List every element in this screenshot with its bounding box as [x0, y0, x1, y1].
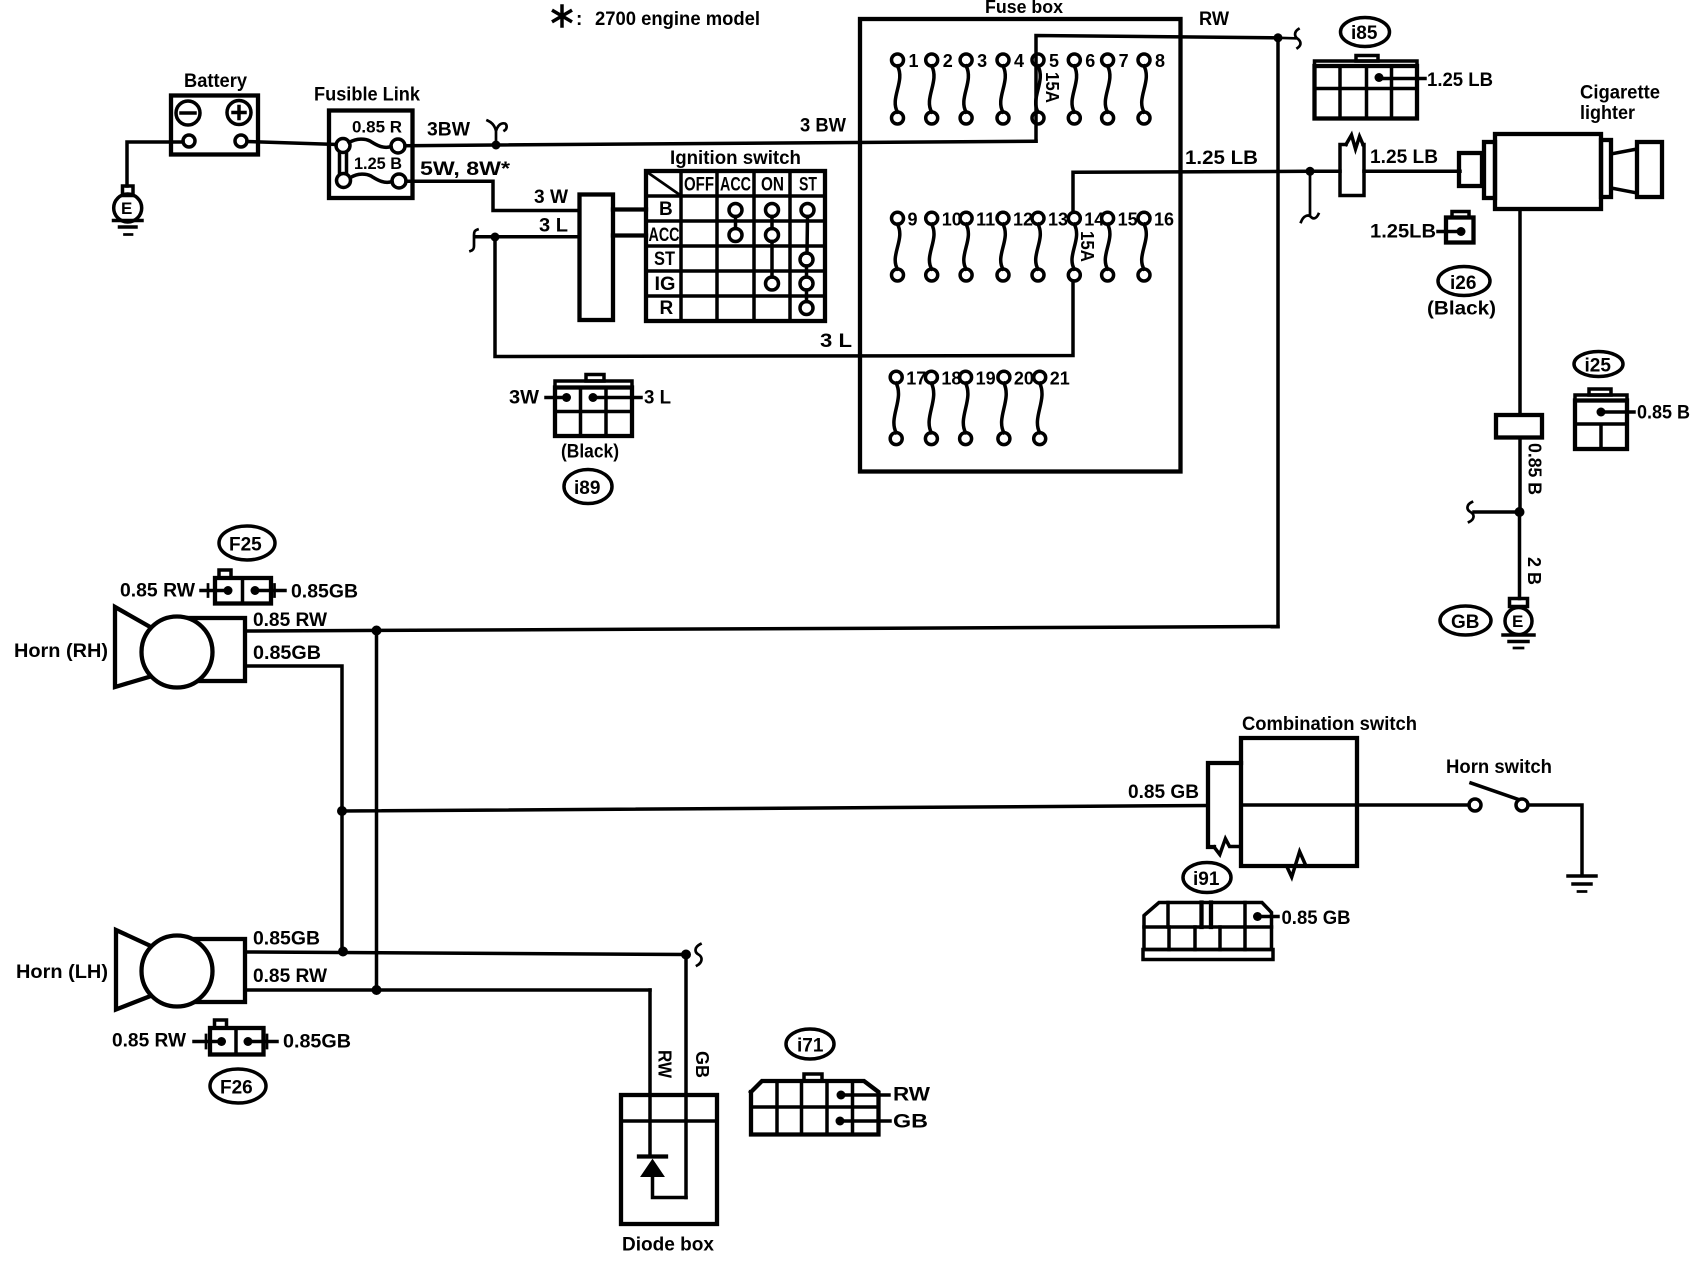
svg-text:15A: 15A [1077, 231, 1097, 262]
wire 0.85 RW horn LH to diode box [245, 988, 650, 992]
connector i85 [1315, 56, 1426, 119]
svg-text:R: R [660, 298, 674, 319]
connector branch symbol on 3BW [488, 121, 507, 146]
svg-text:ACC: ACC [649, 225, 680, 246]
fuse 6 [1068, 51, 1095, 124]
wire below inline connector [1518, 438, 1522, 513]
svg-text:2700 engine model: 2700 engine model [595, 9, 760, 30]
svg-text:21: 21 [1050, 369, 1070, 389]
connector i25 [1575, 389, 1634, 449]
svg-text:Horn (LH): Horn (LH) [16, 962, 108, 983]
fuse 17 [890, 369, 926, 445]
wire battery negative to ground [127, 142, 183, 186]
svg-text:1: 1 [909, 51, 919, 71]
fuse 19 [960, 369, 996, 445]
svg-text:15: 15 [1118, 210, 1138, 230]
cigarette lighter [1459, 83, 1662, 210]
svg-text:Ignition switch: Ignition switch [670, 148, 801, 169]
svg-text:Fusible Link: Fusible Link [314, 85, 420, 106]
diode box [621, 1095, 717, 1224]
junction on 3L wire [491, 233, 500, 242]
junction GB to combination switch [337, 806, 347, 816]
junction GB vertical / horn LH [338, 947, 348, 957]
svg-text:17: 17 [906, 369, 926, 389]
svg-text:ACC: ACC [720, 175, 751, 196]
fuse 3 [960, 51, 987, 124]
svg-text:Diode box: Diode box [622, 1235, 714, 1256]
svg-text:12: 12 [1013, 210, 1033, 230]
svg-text:3 W: 3 W [534, 187, 568, 208]
wire cigarette lighter to ground chain 0.85B [1518, 209, 1522, 415]
horn switch [1446, 757, 1552, 811]
wire 0.85GB horn RH down [245, 666, 342, 952]
fuse 2 [926, 51, 953, 124]
svg-text:F25: F25 [229, 535, 262, 556]
connector i89 [546, 375, 641, 437]
svg-text:7: 7 [1119, 51, 1129, 71]
svg-text:RW: RW [655, 1050, 675, 1078]
battery BAT [171, 71, 258, 155]
svg-text:0.85GB: 0.85GB [291, 582, 358, 603]
svg-text:3W: 3W [509, 388, 539, 409]
connector ref i85 [1341, 18, 1390, 47]
wire RW vertical to horn circuit [1276, 38, 1280, 627]
svg-text:i25: i25 [1585, 356, 1612, 377]
connector i91 [1143, 903, 1278, 960]
svg-text:IG: IG [655, 274, 676, 295]
svg-text::: : [576, 9, 582, 30]
junction 1.25LB wire [1306, 167, 1315, 176]
connector i26 (1.25LB) [1438, 212, 1474, 243]
svg-text:0.85 GB: 0.85 GB [1282, 908, 1351, 929]
svg-text:Fuse box: Fuse box [985, 0, 1063, 17]
svg-text:i85: i85 [1351, 23, 1378, 44]
fuse 5 [1032, 51, 1059, 124]
connector ref i89 [564, 470, 612, 504]
wire 0.85GB horn LH to diode box [245, 952, 686, 955]
svg-text:Battery: Battery [184, 71, 247, 92]
svg-text:Horn switch: Horn switch [1446, 757, 1552, 778]
svg-text:i71: i71 [797, 1036, 824, 1057]
fuse box internal bus fuse 14 to 1.25LB output [1073, 171, 1310, 212]
svg-text:GB: GB [893, 1112, 928, 1133]
svg-text:13: 13 [1048, 210, 1068, 230]
wire 0.85GB to combination switch [342, 806, 1208, 812]
connector i71 [751, 1074, 890, 1135]
svg-text:0.85 RW: 0.85 RW [120, 581, 195, 602]
ignition table column labels [684, 175, 817, 196]
svg-text:GB: GB [1451, 612, 1480, 633]
svg-text:B: B [659, 199, 673, 220]
svg-text:3 L: 3 L [820, 331, 852, 352]
svg-text:i91: i91 [1193, 869, 1220, 890]
fuse 14 [1068, 210, 1104, 282]
connector F25 [201, 570, 285, 604]
connector continuation symbol below 1.25LB junction [1301, 171, 1319, 222]
svg-text:(Black): (Black) [561, 442, 619, 463]
junction on 3BW wire [492, 141, 501, 150]
svg-text:19: 19 [976, 369, 996, 389]
svg-text:0.85 B: 0.85 B [1525, 443, 1545, 495]
svg-text:9: 9 [908, 210, 918, 230]
fuse 1 [892, 51, 919, 124]
connector ref i25 [1574, 352, 1623, 377]
wire RW vertical (x377) [375, 631, 379, 991]
fuse 4 [997, 51, 1024, 124]
wire RW down into diode box [648, 990, 652, 1156]
ignition table row labels [649, 199, 680, 319]
junction RW wire [1274, 33, 1283, 42]
wire GB down into diode box [684, 955, 688, 1198]
fuse 15 [1102, 210, 1138, 282]
svg-text:RW: RW [1199, 9, 1229, 30]
wire horn switch to ground [1528, 805, 1582, 875]
svg-text:i89: i89 [574, 478, 600, 499]
svg-text:8: 8 [1155, 51, 1165, 71]
svg-text:4: 4 [1014, 51, 1024, 71]
fuse 16 [1138, 210, 1174, 282]
fuse box [860, 0, 1181, 472]
wire 3L down and right to fuse box [495, 237, 1073, 357]
inline connector on 1.25LB wire [1310, 135, 1364, 196]
fuse 18 [925, 369, 961, 445]
svg-text:ST: ST [654, 249, 675, 270]
connector ref i71 [786, 1029, 834, 1059]
fuse 9 [892, 210, 918, 282]
wire 3BW from fusible link to fuse box [405, 141, 1036, 146]
svg-text:i26: i26 [1450, 273, 1476, 294]
connector continuation symbol RW [1278, 29, 1300, 48]
wire 3L from connector stub to ignition switch [475, 235, 580, 239]
fuse 13 [1032, 210, 1068, 282]
junction RW vertical / horn LH [372, 985, 382, 995]
svg-text:15A: 15A [1042, 72, 1062, 103]
fusible link bus bar [340, 153, 347, 174]
svg-text:0.85 RW: 0.85 RW [253, 610, 327, 631]
wire 2B to ground [1518, 512, 1522, 599]
svg-text:E: E [1512, 612, 1523, 631]
wire battery to fusible link [247, 142, 336, 145]
svg-text:F26: F26 [220, 1078, 253, 1099]
svg-text:OFF: OFF [684, 175, 714, 196]
svg-text:0.85GB: 0.85GB [253, 929, 320, 950]
svg-text:5: 5 [1049, 51, 1059, 71]
fuse 20 [998, 369, 1034, 445]
svg-text:E: E [121, 199, 132, 218]
ignition switch contact links [736, 217, 808, 302]
svg-text:Combination switch: Combination switch [1242, 714, 1417, 735]
horn LH [116, 930, 245, 1010]
connector ref F26 [210, 1069, 266, 1103]
svg-text:Cigarette: Cigarette [1580, 83, 1660, 104]
connector ref i91 [1183, 863, 1231, 893]
svg-text:0.85 RW: 0.85 RW [253, 966, 327, 987]
connector ref F25 [219, 526, 275, 560]
svg-text:0.85GB: 0.85GB [283, 1032, 351, 1053]
fuse 8 [1138, 51, 1165, 124]
svg-text:3BW: 3BW [427, 120, 470, 141]
svg-text:2 B: 2 B [1524, 557, 1544, 585]
svg-text:1.25LB: 1.25LB [1370, 222, 1436, 243]
fusible link element 0.85R [336, 139, 405, 154]
fuse 7 [1102, 51, 1129, 124]
svg-text:3 L: 3 L [539, 216, 568, 237]
junction 0.85B/2B [1515, 507, 1525, 517]
svg-text:11: 11 [976, 210, 995, 230]
ground E (battery) [114, 186, 143, 235]
diode D1 [639, 1157, 666, 1177]
wire combination switch to horn switch [1357, 803, 1469, 807]
svg-text:1.25 LB: 1.25 LB [1427, 70, 1493, 91]
svg-text:ST: ST [799, 175, 817, 196]
ignition switch connector body [580, 195, 647, 321]
connector F26 [194, 1020, 277, 1055]
connector end symbol on 3L [471, 230, 478, 252]
svg-text:0.85 RW: 0.85 RW [112, 1031, 186, 1052]
svg-text:2: 2 [943, 51, 953, 71]
connector continuation symbol (GB) [696, 944, 702, 966]
svg-text:1.25 LB: 1.25 LB [1185, 148, 1258, 169]
junction GB diode branch [681, 950, 691, 960]
svg-text:GB: GB [692, 1051, 712, 1078]
wire 0.85RW horn RH to RW vertical [245, 627, 1278, 632]
inline connector on 0.85B wire [1496, 415, 1542, 438]
net label GB [1440, 606, 1491, 635]
ground (horn switch) [1568, 876, 1596, 892]
svg-text:0.85 GB: 0.85 GB [1128, 782, 1199, 803]
ignition switch contacts [729, 204, 814, 315]
fuse box internal bus to fuse 5 and RW output [1036, 36, 1278, 142]
svg-text:RW: RW [893, 1085, 930, 1106]
svg-text:ON: ON [761, 175, 784, 196]
ground E (2B) [1503, 599, 1534, 649]
ignition switch table [646, 171, 825, 321]
branch wire with continuation symbol [1474, 510, 1520, 514]
wire 1.25LB to cigarette lighter [1364, 170, 1460, 174]
wire 5W,8W from fusible link to ignition switch [406, 181, 580, 210]
svg-text:20: 20 [1014, 369, 1034, 389]
combination switch [1208, 714, 1417, 877]
svg-text:0.85 R: 0.85 R [352, 118, 402, 137]
junction horn RH RW [372, 626, 382, 636]
wire diode to GB leg [653, 1177, 687, 1198]
note: 2700 engine model [554, 6, 761, 30]
svg-text:0.85GB: 0.85GB [253, 643, 321, 664]
svg-text:16: 16 [1154, 210, 1174, 230]
svg-text:1.25 LB: 1.25 LB [1370, 147, 1438, 168]
svg-text:(Black): (Black) [1427, 299, 1496, 320]
svg-text:0.85 B: 0.85 B [1637, 403, 1690, 424]
fuse 11 [960, 210, 995, 282]
svg-text:1.25 B: 1.25 B [354, 154, 402, 173]
svg-text:3: 3 [977, 51, 987, 71]
svg-text:Horn (RH): Horn (RH) [14, 641, 108, 662]
svg-text:3 BW: 3 BW [800, 116, 846, 137]
svg-text:lighter: lighter [1580, 103, 1636, 124]
fuse 21 [1034, 369, 1070, 445]
horn RH [115, 607, 245, 688]
fusible link FL [314, 85, 420, 199]
fuse 10 [926, 210, 962, 282]
connector ref i26 [1438, 267, 1490, 296]
fusible link element 1.25B [337, 174, 407, 189]
fuse 12 [997, 210, 1033, 282]
svg-text:3 L: 3 L [644, 388, 671, 409]
svg-text:5W, 8W*: 5W, 8W* [420, 159, 511, 180]
svg-text:6: 6 [1085, 51, 1095, 71]
